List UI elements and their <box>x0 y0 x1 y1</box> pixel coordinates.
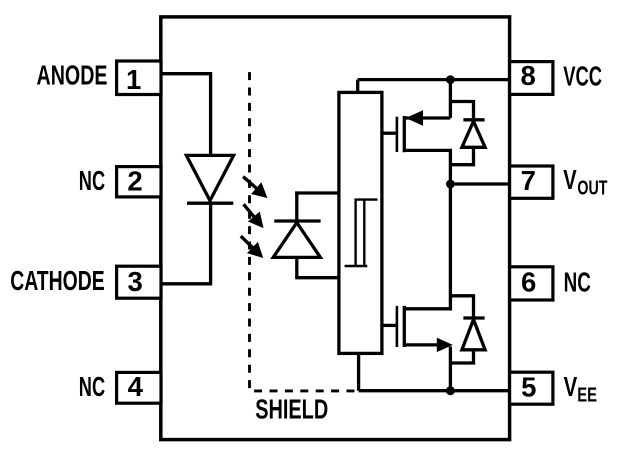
pin 2 <box>117 165 161 197</box>
pin 5 <box>510 371 553 404</box>
transistor Q2 (N-channel MOSFET) <box>382 306 452 391</box>
wire LED cathode to pin 3 <box>161 203 211 284</box>
shield dashed line <box>250 72 357 391</box>
svg-text:8: 8 <box>520 60 535 91</box>
pin 8 <box>510 60 553 94</box>
pin 1 <box>117 61 161 95</box>
svg-text:SHIELD: SHIELD <box>255 394 328 425</box>
svg-text:NC: NC <box>79 371 105 402</box>
wire photodiode anode to amp <box>295 276 339 279</box>
svg-text:5: 5 <box>521 371 536 402</box>
body diode D4 (Q2) <box>450 296 485 363</box>
wire VOUT node to NMOS drain <box>404 184 450 309</box>
LED D1 <box>186 155 233 203</box>
amplifier block U1 <box>339 92 382 353</box>
svg-text:3: 3 <box>128 266 143 297</box>
schmitt trigger hysteresis symbol <box>345 199 378 268</box>
svg-text:4: 4 <box>128 371 144 402</box>
junction VEE node <box>446 386 455 395</box>
pin 6 <box>510 266 553 300</box>
light arrow 2 <box>244 204 263 227</box>
svg-text:2: 2 <box>127 165 142 196</box>
wire VOUT node to pin 7 <box>450 182 510 185</box>
wire amp bottom to VEE rail <box>357 353 360 390</box>
svg-text:7: 7 <box>521 165 536 196</box>
light arrow 3 <box>241 236 263 257</box>
svg-text:VCC: VCC <box>563 60 602 91</box>
wire pin1 to LED anode <box>161 74 211 155</box>
wire VCC rail to pin 8 <box>358 78 511 81</box>
wire photodiode cathode to amp <box>295 191 339 194</box>
light arrow 1 <box>243 177 267 198</box>
transistor Q1 (P-channel MOSFET) <box>382 111 451 184</box>
photodiode D2 <box>273 191 320 277</box>
body diode D3 (Q1) <box>450 102 485 165</box>
svg-text:NC: NC <box>79 165 105 196</box>
svg-text:6: 6 <box>521 266 536 297</box>
wire VEE rail to pin 5 <box>359 389 511 392</box>
wire amp top to VCC rail <box>356 80 359 93</box>
svg-text:CATHODE: CATHODE <box>10 265 105 296</box>
svg-text:ANODE: ANODE <box>37 60 108 91</box>
junction VOUT node <box>446 180 455 189</box>
pin 7 <box>510 165 553 198</box>
svg-text:1: 1 <box>126 64 141 95</box>
IC package outline <box>161 17 510 440</box>
pin 3 <box>117 266 161 298</box>
svg-text:NC: NC <box>564 266 591 297</box>
wire VCC to PMOS source <box>449 80 452 118</box>
pin 4 <box>117 371 161 403</box>
junction VCC node <box>446 75 455 84</box>
